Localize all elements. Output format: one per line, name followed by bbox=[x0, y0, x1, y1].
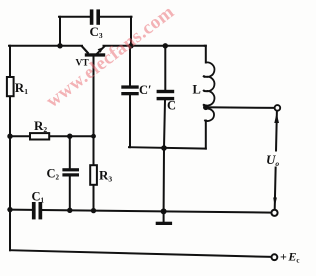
junction: C2 / bottom node bbox=[67, 208, 72, 213]
resistor R1 bbox=[7, 77, 14, 96]
svg-text:+Ec: +Ec bbox=[280, 250, 299, 265]
terminal: output - bbox=[271, 210, 277, 216]
wire: emitter horizontal bbox=[104, 45, 206, 47]
junction: L tap bbox=[203, 105, 209, 111]
junction: left bus / bottom node bbox=[7, 207, 12, 212]
arrow down on Uo line bbox=[273, 198, 277, 207]
svg-text:R1: R1 bbox=[15, 80, 28, 96]
wire: bottom node horizontal bbox=[10, 210, 272, 213]
wire: C-prime lower lead bbox=[129, 95, 131, 147]
wire: left vertical bus bbox=[9, 46, 11, 250]
wire: L lower lead bbox=[205, 121, 207, 149]
capacitor C1 bbox=[32, 202, 42, 219]
junction: emitter wire / C bbox=[163, 43, 168, 48]
arrow up on Uo line bbox=[274, 113, 279, 123]
terminal: output + bbox=[275, 105, 281, 111]
resistor R3 bbox=[90, 165, 97, 185]
ground bbox=[156, 211, 172, 225]
inductor L bbox=[203, 62, 214, 105]
svg-text:C3: C3 bbox=[90, 24, 103, 40]
junction: tank bottom node bbox=[161, 145, 167, 151]
wire: C2 lower lead bbox=[69, 176, 71, 210]
junction: R3 / bottom node bbox=[91, 208, 96, 213]
capacitor C-prime bbox=[121, 85, 138, 95]
capacitor C bbox=[157, 90, 175, 101]
junction: R2 / C2 bbox=[67, 134, 72, 139]
wire: C upper lead bbox=[164, 46, 166, 90]
transistor VT bbox=[82, 46, 106, 57]
resistor R2 bbox=[30, 133, 49, 139]
wire: C2 upper lead bbox=[69, 136, 71, 168]
wire: base lead vertical bbox=[93, 56, 95, 136]
wire: C3 loop left vertical bbox=[59, 17, 61, 46]
svg-text:C: C bbox=[167, 99, 176, 113]
wire: C lower lead bbox=[164, 100, 165, 211]
wire: top-left horizontal (base-side) bbox=[9, 45, 82, 47]
wire: C3 loop right vertical bbox=[130, 17, 132, 46]
capacitor C3 bbox=[90, 9, 100, 24]
svg-text:L: L bbox=[193, 83, 201, 97]
terminal: +Ec bbox=[272, 254, 278, 260]
junction: ground node bbox=[161, 208, 167, 214]
wire: +Ec supply bottom bbox=[10, 250, 272, 257]
wire: R2 bias horizontal bbox=[10, 135, 94, 137]
svg-text:R2: R2 bbox=[34, 118, 47, 134]
svg-text:C2: C2 bbox=[47, 167, 60, 182]
wire: R3 lead vertical bbox=[93, 136, 95, 210]
svg-text:C1: C1 bbox=[32, 190, 45, 205]
svg-text:R3: R3 bbox=[99, 168, 112, 184]
watermark www.elecfans.com bbox=[42, 2, 179, 113]
wire: C-prime upper lead bbox=[129, 46, 131, 86]
label Uo bbox=[265, 152, 285, 169]
junction: left bus / R2 bbox=[7, 134, 12, 139]
wire: tank bottom jog bbox=[129, 147, 206, 148]
svg-text:C′: C′ bbox=[139, 83, 152, 97]
junction: base wire / C3 loop bbox=[57, 43, 62, 48]
junction: R2 / base lead bbox=[91, 134, 96, 139]
capacitor C2 bbox=[62, 168, 79, 176]
wire: output vertical (Uo) bbox=[275, 111, 277, 210]
wire: output tap horizontal bbox=[206, 106, 275, 109]
wire: C3 loop top horizontal bbox=[59, 16, 90, 18]
junction: emitter wire / C3 and C-prime bbox=[128, 43, 133, 48]
wire: L branch top corner bbox=[205, 46, 206, 63]
